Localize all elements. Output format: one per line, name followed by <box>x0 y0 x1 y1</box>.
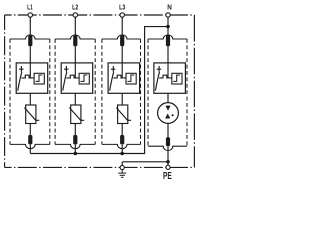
disconnector with status indicator U4 (N) <box>154 63 186 93</box>
terminal block L3 bottom <box>120 135 124 144</box>
junction dot PE node <box>166 160 170 164</box>
wire N block to PE node <box>167 146 169 162</box>
terminal block N top <box>166 35 170 46</box>
ground symbol <box>118 170 126 178</box>
terminal circle L3 <box>120 13 124 17</box>
terminal circle PE <box>166 165 170 169</box>
wire L2 block to disconnector <box>74 46 76 78</box>
terminal block L2 top <box>73 35 77 46</box>
svg-text:L2: L2 <box>72 2 78 11</box>
wire N disconnector to spark gap <box>167 93 169 102</box>
wire L3 varistor to bottom block <box>121 124 123 136</box>
terminal block L3 top <box>120 35 124 46</box>
svg-text:PE: PE <box>163 170 172 182</box>
wire ground stub <box>121 162 123 166</box>
terminal circle ground <box>120 165 124 169</box>
wire L1 block to disconnector <box>29 46 31 78</box>
disconnector with status indicator U3 (L3) <box>108 63 140 93</box>
frame left <box>4 15 6 167</box>
module 1 enclosure (dashed plug-in boundary) <box>10 35 50 149</box>
terminal block N bottom <box>166 137 170 146</box>
frame bottom <box>5 166 195 168</box>
wire L1 block to bus <box>29 144 31 153</box>
disconnector with status indicator U1 (L1) <box>16 63 48 93</box>
junction dot bus at L3 <box>120 152 124 156</box>
wire N branch to phase bus (3+1 connection) <box>30 27 168 154</box>
varistor R2 (L2) <box>69 105 84 124</box>
terminal circle N <box>166 13 170 17</box>
wire L3 disconnector to varistor <box>121 93 123 105</box>
svg-text:L1: L1 <box>27 2 33 11</box>
junction dot bus at L2 <box>74 152 78 156</box>
terminal block L2 bottom <box>73 135 77 144</box>
wire N block to disconnector <box>167 46 169 78</box>
wire L2 varistor to bottom block <box>74 124 76 136</box>
wire L3 block to disconnector <box>121 46 123 78</box>
varistor R1 (L1) <box>24 105 39 124</box>
terminal circle L1 <box>28 13 32 17</box>
wire L3 terminal to block <box>121 17 123 35</box>
wire L2 terminal to block <box>74 17 76 35</box>
junction dot N branch <box>166 25 170 29</box>
module 3 enclosure (dashed plug-in boundary) <box>102 35 141 149</box>
wire L1 varistor to bottom block <box>29 124 31 136</box>
terminal circle L2 <box>73 13 77 17</box>
wire PE line from ground node to PE node <box>122 161 168 163</box>
wire N terminal to block <box>167 17 169 35</box>
wire L1 disconnector to varistor <box>29 93 31 105</box>
wire L2 disconnector to varistor <box>74 93 76 105</box>
wire spark gap to bottom block <box>167 124 169 138</box>
module 4 enclosure (dashed plug-in boundary) <box>148 35 187 151</box>
terminal block L1 bottom <box>28 135 32 144</box>
svg-text:N: N <box>167 2 172 11</box>
terminal block L1 top <box>28 35 32 46</box>
wire L3 block to bus <box>121 144 123 153</box>
frame right <box>193 15 195 167</box>
spark gap F1 (N-PE) <box>158 103 179 124</box>
wire PE node to PE terminal <box>167 162 169 166</box>
varistor R3 (L3) <box>116 105 131 124</box>
wire L1 terminal to block <box>29 17 31 35</box>
disconnector with status indicator U2 (L2) <box>61 63 92 93</box>
module 2 enclosure (dashed plug-in boundary) <box>55 35 95 149</box>
frame top (dash-dot device boundary) <box>5 14 195 16</box>
wire L2 block to bus <box>74 144 76 153</box>
svg-text:L3: L3 <box>119 2 125 11</box>
